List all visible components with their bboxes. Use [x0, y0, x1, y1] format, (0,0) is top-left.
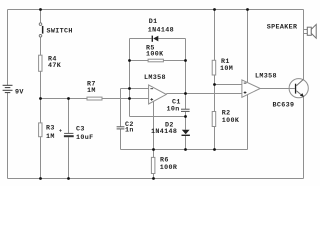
switch S1: [39, 23, 43, 37]
wire C1 bottom to D2: [185, 112, 187, 130]
wire R1 to R2: [214, 75, 216, 112]
wire U1 Vminus to mid rail: [153, 102, 155, 150]
node U2 Vplus top rail: [246, 8, 249, 11]
svg-text:100K: 100K: [222, 117, 240, 125]
wire speaker stubs: [304, 30, 308, 34]
svg-text:R3: R3: [46, 125, 55, 133]
wire left battery column top: [7, 10, 9, 86]
node U1 output / C1: [184, 92, 187, 95]
svg-text:47K: 47K: [48, 62, 62, 70]
node D2 mid rail: [184, 148, 187, 151]
wire mid rail to R6: [153, 150, 155, 158]
node R6 bottom rail: [152, 177, 155, 180]
node R3 bottom rail: [39, 177, 42, 180]
svg-text:SWITCH: SWITCH: [47, 28, 73, 36]
svg-text:100K: 100K: [146, 51, 164, 59]
node C3 bottom rail: [67, 177, 70, 180]
wire U2 output to transistor base: [260, 88, 295, 90]
wire bottom rail: [8, 178, 304, 180]
wire R1 column top: [214, 10, 216, 61]
svg-text:100R: 100R: [160, 164, 177, 172]
transistor Q1 BC639: [289, 79, 308, 98]
wire node to U2 minus input: [215, 84, 242, 86]
svg-text:10uF: 10uF: [76, 134, 93, 142]
wire U1 output to U2 plus input: [166, 93, 242, 95]
svg-text:9V: 9V: [15, 89, 24, 97]
svg-text:10M: 10M: [220, 65, 233, 73]
wire emitter to bottom rail: [303, 97, 305, 179]
capacitor C1: [181, 109, 190, 111]
svg-text:C3: C3: [76, 126, 85, 134]
diode D1: [152, 36, 159, 42]
wire R5 branch: [130, 60, 149, 62]
node R5 right: [184, 59, 187, 62]
resistor R5: [148, 59, 163, 62]
wire R4 to R3: [40, 71, 42, 123]
wire node row to U1 plus input: [41, 98, 88, 100]
svg-text:1M: 1M: [46, 133, 55, 141]
wire top rail: [8, 9, 304, 11]
wire C2 column top: [120, 89, 122, 127]
wire D1 branch: [130, 38, 152, 40]
svg-text:LM358: LM358: [255, 73, 277, 81]
wire C2 column bottom: [120, 129, 122, 150]
svg-text:D1: D1: [149, 18, 158, 26]
node U1 plus input: [128, 97, 131, 100]
resistor R3: [39, 123, 42, 137]
wire left battery column bottom: [7, 93, 9, 179]
resistor R6: [151, 157, 155, 173]
node R5 left: [128, 59, 131, 62]
wire D2 to mid rail: [185, 136, 187, 150]
node R6 mid rail: [152, 148, 155, 151]
node U1 minus input: [128, 87, 131, 90]
node C3 branch: [67, 97, 70, 100]
wire feedback left vertical: [129, 39, 131, 117]
node R1 top rail: [213, 8, 216, 11]
resistor R7: [87, 97, 102, 100]
wire minus input: [130, 88, 149, 90]
wire mid ground rail: [121, 149, 248, 151]
node C1/D2 junction: [184, 115, 187, 118]
wire speaker/collector column: [303, 10, 305, 80]
resistor R1: [212, 60, 216, 75]
node R1/R2 to U2 minus: [213, 83, 216, 86]
wire switch column top: [40, 10, 42, 23]
svg-text:LM358: LM358: [144, 74, 166, 82]
op-amp U1 LM358: [149, 85, 167, 104]
speaker LS1: [307, 24, 316, 38]
svg-text:1M: 1M: [87, 87, 96, 95]
resistor R2: [212, 112, 216, 127]
svg-text:1N4148: 1N4148: [148, 27, 174, 35]
capacitor C3: [59, 129, 73, 137]
wire feedback right vertical / C1 top: [185, 39, 187, 110]
wire R3 to bottom rail: [40, 137, 42, 179]
wire C2 branch horizontal: [121, 88, 130, 90]
wire switch to R4: [40, 37, 42, 55]
svg-text:SPEAKER: SPEAKER: [267, 24, 298, 32]
svg-text:1N4148: 1N4148: [151, 128, 177, 136]
svg-text:10n: 10n: [167, 105, 180, 113]
battery BT1 9V: [3, 85, 13, 92]
capacitor C2: [117, 127, 125, 129]
node switch top rail: [39, 8, 42, 11]
op-amp U2 LM358: [242, 80, 260, 97]
svg-text:BC639: BC639: [273, 102, 295, 110]
node R4/R7/R3 junction: [39, 97, 42, 100]
node R2 mid rail: [213, 148, 216, 151]
wire U2 Vplus from top rail: [247, 10, 249, 83]
diode D2: [182, 130, 190, 136]
svg-text:1n: 1n: [125, 126, 134, 134]
wire C3 column: [68, 99, 70, 134]
wire R6 to bottom rail: [153, 174, 155, 179]
wire U2 Vminus to mid rail: [247, 95, 249, 150]
resistor R4: [39, 55, 42, 71]
wire minus node to C1/D2 junction: [130, 116, 186, 118]
wire R2 to mid rail: [214, 127, 216, 150]
